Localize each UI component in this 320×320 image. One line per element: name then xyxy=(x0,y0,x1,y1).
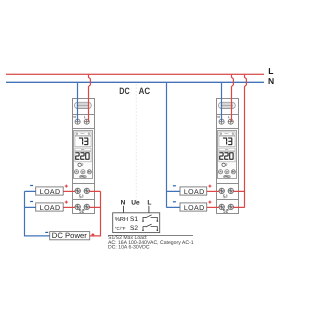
wire LOAD2 plus to S2 xyxy=(63,206,75,208)
legend label C/F xyxy=(115,226,126,231)
wire N drop to U2 xyxy=(221,82,223,121)
svg-text:S1: S1 xyxy=(130,216,138,223)
controller U2 xyxy=(216,99,239,214)
wire L line xyxy=(6,73,264,75)
wire L drop to U2 with hop xyxy=(232,74,234,121)
legend box xyxy=(113,213,160,233)
relay contact S1 xyxy=(142,215,158,222)
note line 2 xyxy=(108,239,194,245)
DC/AC divider dashed xyxy=(135,84,137,210)
note divider rule xyxy=(108,234,193,236)
polarity minus DC power xyxy=(45,231,48,233)
svg-text:Ue: Ue xyxy=(131,199,140,206)
svg-text:N: N xyxy=(121,199,126,206)
polarity plus LOAD1 right xyxy=(208,185,211,188)
wire LOAD1 plus to S1 xyxy=(63,190,75,192)
polarity minus LOAD2 right xyxy=(173,201,176,203)
controller U1 xyxy=(72,99,95,214)
svg-text:%RH: %RH xyxy=(115,216,129,222)
polarity plus LOAD2 left xyxy=(65,201,68,204)
svg-text:DC Power: DC Power xyxy=(52,231,87,240)
load box LOAD2 right xyxy=(180,203,207,211)
wire DC minus bus left xyxy=(25,191,50,236)
polarity plus LOAD1 left xyxy=(65,185,68,188)
wire N drop to U1 xyxy=(77,82,79,121)
svg-text:LOAD: LOAD xyxy=(40,189,61,196)
svg-text:N: N xyxy=(268,76,274,86)
note line 3 xyxy=(108,244,150,250)
polarity minus LOAD2 left xyxy=(30,201,33,203)
svg-text:LOAD: LOAD xyxy=(184,189,205,196)
legend tick L xyxy=(148,206,150,213)
svg-text:LOAD: LOAD xyxy=(40,205,61,212)
DC power supply box xyxy=(50,232,90,240)
wire N line xyxy=(6,81,264,83)
legend label %RH xyxy=(115,216,129,222)
svg-text:°C/°F: °C/°F xyxy=(115,226,126,231)
svg-text:DC: DC xyxy=(119,86,130,96)
load box LOAD1 left xyxy=(36,187,64,195)
wire L bus right with hop xyxy=(234,74,247,208)
svg-text:DC: 10A 6-30VDC: DC: 10A 6-30VDC xyxy=(108,244,150,250)
polarity minus LOAD1 left xyxy=(30,185,33,187)
wire L drop to U1 with hop xyxy=(89,74,91,121)
wire N bus right xyxy=(167,82,181,208)
polarity plus LOAD2 right xyxy=(208,201,211,204)
svg-text:LOAD: LOAD xyxy=(184,205,205,212)
svg-text:AC: AC xyxy=(139,86,151,96)
svg-text:L: L xyxy=(268,66,273,76)
polarity plus DC power xyxy=(91,233,94,236)
legend tick N xyxy=(123,206,125,213)
note line 1 xyxy=(108,235,147,241)
load box LOAD1 right xyxy=(180,187,207,195)
wire LOAD2 right to S2 xyxy=(207,206,220,208)
svg-text:S2: S2 xyxy=(130,225,138,232)
wire LOAD1 right to S1 xyxy=(207,190,220,192)
polarity minus LOAD1 right xyxy=(173,185,176,187)
wire DC plus bus to S1/S2 xyxy=(90,191,101,236)
relay contact S2 xyxy=(142,224,158,231)
load box LOAD2 left xyxy=(36,203,64,211)
svg-text:L: L xyxy=(147,199,151,206)
